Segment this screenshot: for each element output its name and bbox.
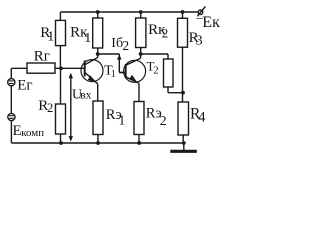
resistor Re1 [93, 101, 103, 143]
terminal -Ek [197, 7, 205, 17]
svg-text:2: 2 [122, 38, 129, 53]
transistor T1 [81, 54, 103, 101]
node top R3 [181, 10, 185, 14]
label R4 [190, 105, 206, 125]
label Re1 [106, 107, 125, 127]
svg-text:вх: вх [80, 90, 91, 102]
svg-text:1: 1 [119, 113, 126, 128]
label Rk1 [70, 25, 91, 46]
resistor Rg [11, 63, 84, 79]
label Uvx [72, 88, 92, 103]
svg-text:4: 4 [198, 110, 206, 126]
label T2 [147, 59, 159, 77]
node rail ground [182, 141, 186, 145]
resistor R2 [56, 69, 66, 144]
svg-text:2: 2 [162, 25, 169, 40]
node top Rk2 [139, 10, 143, 14]
svg-text:Rг: Rг [34, 48, 50, 64]
resistor Re2 [134, 102, 144, 144]
resistor R3 [178, 12, 188, 102]
label R1 [40, 25, 54, 44]
svg-text:1: 1 [47, 29, 54, 44]
source Ekomp [8, 113, 15, 143]
wire T1 collector to T2 base [98, 54, 126, 73]
node rail R2 [59, 141, 63, 145]
ground [170, 143, 197, 151]
svg-text:3: 3 [196, 33, 203, 48]
label Ekomp [13, 123, 45, 139]
svg-text:2: 2 [160, 114, 167, 129]
svg-text:Iб: Iб [111, 36, 123, 51]
label Rk2 [148, 22, 168, 41]
label T1 [104, 64, 116, 81]
node top Rk1 [96, 10, 100, 14]
node base T1 [59, 67, 63, 71]
wire bottom rail [11, 142, 183, 144]
label Ib2 [111, 36, 129, 53]
node rail Re1 [96, 141, 100, 145]
label Re2 [146, 106, 167, 129]
arrow Uvx [69, 73, 73, 142]
svg-text:2: 2 [47, 101, 53, 115]
resistor R1 [56, 12, 66, 69]
svg-text:1: 1 [84, 31, 91, 46]
resistor Rk2 [136, 12, 146, 54]
label R3 [189, 30, 203, 48]
node rail Re2 [137, 141, 141, 145]
label Rg [34, 48, 50, 64]
resistor R4 [178, 102, 189, 143]
svg-text:1: 1 [111, 69, 116, 80]
svg-text:2: 2 [153, 64, 159, 76]
node middle resistor to R4 column [181, 91, 185, 95]
wire top rail [60, 11, 198, 13]
resistor Rk1 [93, 12, 103, 54]
wire T2 collector to middle resistor [141, 54, 168, 59]
label -Ek [195, 10, 220, 31]
svg-text:Ек: Ек [202, 14, 220, 31]
node T2 collector [139, 52, 143, 56]
svg-text:Ег: Ег [17, 77, 32, 93]
resistor middle (unlabeled) [164, 59, 184, 93]
transistor T2 [119, 54, 145, 102]
label Eg [17, 77, 32, 93]
node T1 collector [96, 52, 100, 56]
source Eg [8, 79, 15, 114]
svg-text:комп: комп [21, 127, 44, 139]
arrow Ib2 [117, 54, 122, 59]
label R2 [38, 98, 53, 115]
